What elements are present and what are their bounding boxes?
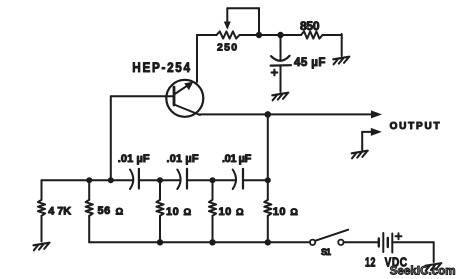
svg-text:HEP-254: HEP-254 (132, 59, 191, 75)
svg-text:250: 250 (217, 42, 239, 54)
svg-text:.01 µF: .01 µF (118, 153, 150, 165)
svg-text:Ω: Ω (290, 207, 298, 218)
svg-text:12: 12 (365, 256, 376, 270)
svg-text:Ω: Ω (236, 207, 244, 218)
svg-text:.01 µF: .01 µF (167, 153, 200, 165)
svg-text:OUTPUT: OUTPUT (390, 121, 442, 132)
svg-text:56: 56 (98, 205, 111, 217)
svg-text:850: 850 (300, 19, 321, 33)
svg-text:S1: S1 (321, 247, 332, 257)
svg-text:Ω: Ω (184, 207, 192, 218)
svg-text:.01 µF: .01 µF (222, 153, 252, 165)
svg-text:10: 10 (219, 206, 232, 218)
svg-text:SeekIC.com: SeekIC.com (390, 265, 456, 277)
svg-text:45 µF: 45 µF (294, 57, 326, 69)
svg-text:Ω: Ω (116, 207, 124, 218)
svg-text:10: 10 (273, 206, 286, 218)
svg-text:10: 10 (166, 206, 179, 218)
svg-text:4 7K: 4 7K (48, 206, 72, 218)
